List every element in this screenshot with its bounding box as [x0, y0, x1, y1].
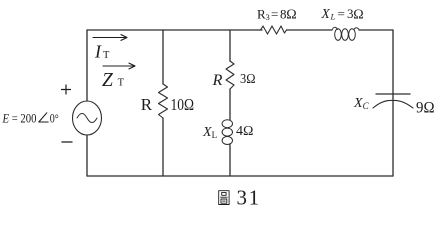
wire right upper — [392, 30, 394, 94]
svg-text:L: L — [330, 12, 336, 22]
arrow ZT — [103, 63, 135, 69]
svg-text:0°: 0° — [50, 111, 59, 126]
source sine wave — [77, 114, 97, 123]
branch middle wire upper — [229, 30, 231, 61]
svg-text:=: = — [338, 6, 345, 21]
source E circle — [73, 101, 102, 135]
svg-text:4Ω: 4Ω — [236, 124, 253, 139]
svg-text:R: R — [212, 72, 223, 89]
branch R10 wire lower — [162, 118, 164, 176]
branch middle wire lower — [229, 145, 231, 177]
angle symbol — [39, 113, 48, 122]
svg-text:Ω: Ω — [353, 7, 363, 22]
wire left upper — [86, 30, 88, 101]
wire top-left segment — [87, 29, 262, 31]
wire between R3 and XL — [287, 29, 333, 31]
svg-text:10Ω: 10Ω — [171, 95, 195, 114]
svg-text:31: 31 — [237, 186, 261, 210]
branch R10 wire upper — [162, 30, 164, 84]
capacitor XC plates — [376, 93, 410, 95]
svg-text:E = 200: E = 200 — [2, 111, 37, 126]
svg-text:3: 3 — [266, 12, 270, 22]
svg-text:XC: XC — [353, 96, 370, 111]
svg-text:=: = — [271, 6, 278, 21]
resistor R3 zigzag — [261, 26, 287, 34]
svg-text:Ω: Ω — [286, 8, 296, 23]
wire bottom — [87, 175, 393, 177]
svg-text:R: R — [141, 95, 153, 114]
svg-text:9Ω: 9Ω — [416, 100, 435, 117]
wire top-right segment — [359, 29, 393, 31]
branch middle wire mid — [229, 89, 231, 120]
resistor R 3 zigzag — [226, 61, 234, 89]
caption glyph TU (figure) — [219, 191, 229, 205]
resistor R 10 zigzag — [159, 84, 168, 118]
svg-text:ZT: ZT — [102, 70, 125, 91]
svg-text:X: X — [321, 6, 331, 21]
arrow IT — [93, 35, 127, 41]
svg-text:3Ω: 3Ω — [240, 72, 256, 87]
svg-text:XL: XL — [202, 125, 217, 140]
wire left lower — [86, 135, 88, 176]
wire right lower — [392, 94, 394, 176]
inductor XL horizontal loops — [332, 27, 338, 30]
inductor XL vertical loops — [222, 120, 232, 128]
minus sign — [62, 141, 72, 143]
svg-text:IT: IT — [94, 42, 110, 62]
plus sign — [62, 85, 71, 94]
